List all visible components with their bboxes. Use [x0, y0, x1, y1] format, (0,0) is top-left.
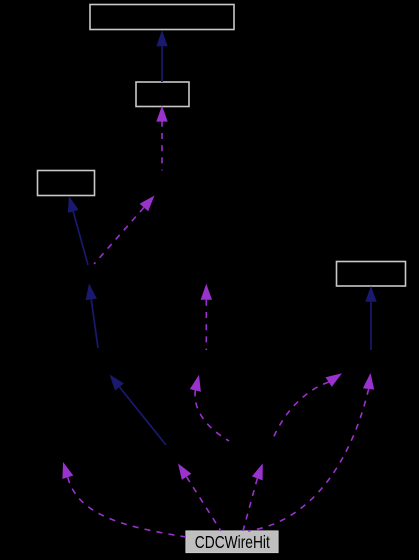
- usage arrow P3: CDCWireHit to right bottom node (dashed purple): [243, 463, 263, 531]
- node CDCWireHit (current class, grey filled): [186, 531, 278, 553]
- svg-text:CDCWireHit: CDCWireHit: [195, 532, 270, 552]
- inheritance arrow K: bottom node to lower node (solid midnightblue): [110, 375, 167, 446]
- usage arrow O: CDCWireHit to right mid node (dashed purple, big right curve): [248, 373, 374, 531]
- node: top class box: [90, 5, 234, 30]
- usage arrow I: junction node to hidden node (dashed purple, diagonal up-right): [94, 196, 155, 265]
- inheritance arrow N: mid node to right box (solid midnightblue): [365, 286, 376, 350]
- node: second class box: [136, 82, 189, 107]
- usage arrow M: bottom node to mid node (dashed purple, curved left): [190, 375, 229, 441]
- usage arrow G: hidden node to box2 (dashed purple, vertical): [156, 106, 167, 171]
- usage arrow P2: CDCWireHit to left bottom node (dashed purple): [178, 463, 221, 531]
- node: right class box: [337, 262, 406, 287]
- usage arrow P1: CDCWireHit to far left node (dashed purple, long left curve): [62, 462, 186, 537]
- inheritance arrow H: junction node to left box (solid midnightblue): [68, 196, 88, 265]
- inheritance arrow F: box2 to top box (solid midnightblue): [156, 30, 167, 82]
- usage arrow L: hidden node to hidden node (dashed purple, vertical): [201, 284, 212, 350]
- usage arrow M2: bottom node to right mid node (dashed purple, curved right): [272, 373, 342, 441]
- inheritance arrow J: lower node to junction node (solid midnightblue): [86, 284, 98, 349]
- node: left class box: [38, 171, 95, 196]
